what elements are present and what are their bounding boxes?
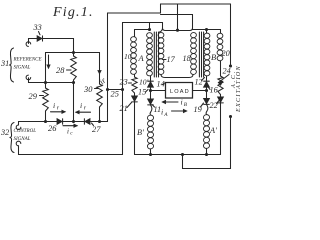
svg-text:26: 26 xyxy=(48,124,57,133)
excitation bottom wire xyxy=(183,117,231,169)
current arrow left rail xyxy=(48,55,50,68)
svg-text:c: c xyxy=(70,131,73,137)
svg-text:20: 20 xyxy=(222,49,230,58)
winding Aprime coil xyxy=(203,114,210,120)
svg-text:10': 10' xyxy=(139,78,149,87)
svg-text:15: 15 xyxy=(138,88,146,97)
control terminal top xyxy=(16,122,21,130)
winding 17 coil xyxy=(158,32,164,38)
wire winding10 to res23 xyxy=(134,75,136,78)
wire diode row xyxy=(19,121,108,123)
diode 22 xyxy=(220,95,222,98)
wire to winding Bprime xyxy=(150,105,152,115)
svg-text:ir: ir xyxy=(97,75,108,87)
winding Aprime bottom lead xyxy=(206,149,208,155)
diode 15 xyxy=(150,76,152,81)
svg-text:B: B xyxy=(184,102,188,108)
wire 25 xyxy=(108,89,123,91)
wire 17-18 bottoms xyxy=(161,75,193,78)
wire load right xyxy=(193,90,207,92)
svg-text:18: 18 xyxy=(183,54,191,63)
left outer vertical xyxy=(107,13,109,122)
svg-text:23: 23 xyxy=(120,78,128,87)
node bus-center xyxy=(72,51,75,54)
winding 20 coil xyxy=(217,33,223,39)
winding 10 lead xyxy=(134,30,136,37)
node ref-bottom-left xyxy=(44,81,47,84)
svg-text:32: 32 xyxy=(0,128,9,137)
node load left xyxy=(149,89,152,92)
node excitation feed xyxy=(176,29,179,32)
current arrow iB xyxy=(163,101,179,103)
wire ref top to diode 33 xyxy=(29,39,37,44)
svg-text:CONTROL: CONTROL xyxy=(14,129,37,134)
wire ref bottom xyxy=(29,78,74,83)
svg-text:30: 30 xyxy=(83,85,93,94)
diode 26 xyxy=(57,119,62,124)
wire diode 33 to center rail xyxy=(43,39,74,50)
svg-text:r: r xyxy=(57,106,60,112)
svg-text:11: 11 xyxy=(154,105,162,114)
current arrow ir left xyxy=(51,111,66,113)
svg-text:29: 29 xyxy=(29,92,38,101)
top bus y13 left xyxy=(108,12,161,14)
wire d15 to d11 xyxy=(150,87,152,99)
current arrow ir right xyxy=(76,111,91,113)
wire res28 to diode row xyxy=(73,80,75,122)
svg-text:i: i xyxy=(80,101,82,110)
wire right rail with arrowhead xyxy=(99,53,101,85)
wire winding20 to res24 xyxy=(220,61,222,76)
svg-text:16: 16 xyxy=(210,86,219,95)
winding Bprime bottom lead xyxy=(150,149,152,155)
svg-text:A: A xyxy=(163,112,168,118)
wire diode22 down xyxy=(220,103,222,155)
winding 18 coil xyxy=(190,32,196,38)
diode 16 xyxy=(206,76,208,81)
node winding A top xyxy=(148,28,151,31)
svg-text:i: i xyxy=(53,101,55,110)
svg-text:22: 22 xyxy=(210,101,218,110)
node ref-bottom-center xyxy=(72,81,75,84)
brace 32 xyxy=(10,123,15,153)
wire res29 to diode row xyxy=(45,111,47,122)
vertical bus y12 to transformer xyxy=(192,15,194,30)
bus x122 vertical xyxy=(122,23,124,155)
node excitation tap xyxy=(181,153,184,156)
svg-text:B': B' xyxy=(137,128,144,137)
svg-text:B: B xyxy=(211,53,216,62)
svg-text:25: 25 xyxy=(111,90,119,99)
winding 10 coil xyxy=(130,36,136,42)
node 25 left xyxy=(106,88,109,91)
excitation feed vertical xyxy=(177,4,179,31)
riser to excitation bus xyxy=(160,4,162,13)
wire res30 to diode row xyxy=(99,107,101,122)
svg-text:i: i xyxy=(181,98,183,107)
reference signal terminal bottom xyxy=(26,75,31,80)
excitation top bus xyxy=(161,3,231,5)
wire diode21 down xyxy=(134,102,136,155)
node load right xyxy=(205,89,208,92)
vertical to winding A top xyxy=(149,23,151,30)
control terminal bottom xyxy=(16,141,122,154)
resistor 24 xyxy=(218,76,223,95)
bottom rail xyxy=(135,154,221,156)
resistor 30 xyxy=(97,84,103,107)
top bus y14.5 right xyxy=(161,14,193,16)
svg-text:12: 12 xyxy=(195,78,203,87)
svg-text:27: 27 xyxy=(92,125,101,134)
bus wire y52 xyxy=(46,52,100,54)
svg-text:31: 31 xyxy=(0,59,9,68)
svg-text:SIGNAL: SIGNAL xyxy=(14,137,31,142)
node row-left xyxy=(44,120,47,123)
right core xyxy=(198,32,200,77)
svg-text:28: 28 xyxy=(56,66,65,75)
brace 31 xyxy=(9,48,13,82)
diode 21 xyxy=(134,93,136,96)
wire left rail upper xyxy=(45,53,47,89)
winding 17 top lead xyxy=(160,23,163,33)
left core xyxy=(153,32,155,77)
winding 20 lead xyxy=(220,30,222,34)
svg-text:SIGNAL: SIGNAL xyxy=(14,66,31,71)
ac terminal lower xyxy=(229,115,232,118)
resistor 23 xyxy=(132,77,137,93)
svg-text:EXCITATION: EXCITATION xyxy=(235,65,240,113)
winding Bprime coil xyxy=(147,115,154,121)
right transformer top bus xyxy=(193,29,221,31)
svg-text:LOAD: LOAD xyxy=(170,89,190,95)
svg-text:Fig.1.: Fig.1. xyxy=(52,5,94,20)
node Aprime bottom xyxy=(205,153,208,156)
node Bprime bottom xyxy=(149,153,152,156)
ac excitation upper wire xyxy=(230,4,232,66)
svg-text:10: 10 xyxy=(124,52,132,61)
resistor 29 xyxy=(43,88,49,111)
node row-center xyxy=(72,120,75,123)
wire to winding Aprime xyxy=(206,104,208,114)
reference signal terminal top xyxy=(26,42,31,47)
resistor 28 xyxy=(73,49,75,56)
svg-text:A: A xyxy=(138,54,145,63)
load box 14 xyxy=(166,83,193,99)
left transformer top bus xyxy=(135,29,150,31)
diode 11 xyxy=(148,99,154,104)
node row-right xyxy=(98,120,101,123)
diode 27 xyxy=(85,119,90,124)
svg-text:REFERENCE: REFERENCE xyxy=(13,58,42,63)
svg-text:21: 21 xyxy=(120,104,128,113)
svg-text:i: i xyxy=(67,128,69,136)
wire load left xyxy=(151,90,166,92)
winding B coil xyxy=(206,30,208,34)
diode 33 xyxy=(37,36,42,41)
winding A coil xyxy=(146,32,152,38)
node 25 right xyxy=(121,88,124,91)
bus y22 xyxy=(123,22,163,24)
current arrow ic xyxy=(63,125,77,127)
svg-text:33: 33 xyxy=(33,23,42,32)
node winding B top xyxy=(205,28,208,31)
cross bus y30 xyxy=(163,28,193,31)
svg-text:r: r xyxy=(84,106,87,112)
svg-text:17: 17 xyxy=(167,55,176,64)
wire d16 to d19 xyxy=(206,87,208,98)
diode 19 xyxy=(204,99,210,104)
svg-text:A': A' xyxy=(209,126,217,135)
svg-text:i: i xyxy=(161,108,163,117)
ac terminal upper xyxy=(229,64,232,67)
